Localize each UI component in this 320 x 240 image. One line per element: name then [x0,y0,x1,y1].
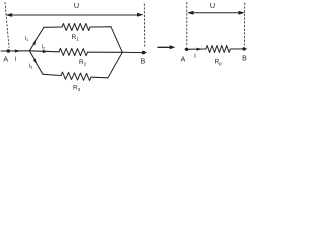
wire: branch 3 bottom-right lead [91,76,108,79]
wire: branch 3 left diagonal [29,51,43,75]
node B (right circuit) [242,47,245,50]
equivalence arrow between circuits [158,45,175,49]
svg-text:R1: R1 [72,34,80,41]
node A (left circuit) [7,49,11,53]
wire: branch 1 left diagonal [29,27,44,51]
wire: branch 2 left lead (middle) [29,51,59,52]
wire: branch 1 right diagonal [111,27,122,53]
svg-text:B: B [242,56,247,63]
resistor Rp [206,46,230,53]
wire: right circuit dashed extension at node B [243,3,245,45]
svg-text:I: I [194,54,196,60]
svg-text:B: B [141,59,146,66]
wire: right circuit dashed extension at node A [186,3,188,46]
current arrow I2 on branch 2 [43,50,48,53]
node B (left circuit) [142,51,146,55]
svg-text:U: U [74,1,79,10]
wire: node A to resistor (right circuit) [185,48,206,50]
resistor R2 [59,48,88,55]
svg-text:R2: R2 [79,59,87,66]
wire: left circuit dashed extension at node B [143,4,146,48]
wire: branch 2 right lead [88,51,123,53]
resistor R1 [62,24,90,31]
svg-text:R3: R3 [73,85,81,92]
voltage arrow U (left circuit) [6,13,144,17]
current arrow I1 on branch 1 [32,39,36,45]
svg-text:I2: I2 [42,45,47,51]
svg-text:A: A [3,57,8,64]
resistor R3 [61,72,91,81]
wire: branch 1 top-right lead [90,26,111,28]
wire: branch 1 top-left lead [44,26,62,28]
svg-text:I: I [15,57,17,63]
svg-text:I1: I1 [25,36,30,42]
wire: main wire from A to junction (left circuit) [1,50,29,52]
voltage arrow U (right circuit) [187,11,245,15]
wire: branch 3 bottom-left lead [43,74,61,75]
node A (right circuit) [185,48,188,51]
svg-text:A: A [181,57,186,64]
wire: junction to node B (left circuit) [122,51,146,53]
svg-text:U: U [210,1,215,10]
current arrow I3 on branch 3 [33,58,37,64]
current arrow I at node A [15,49,20,52]
svg-text:Rp: Rp [215,59,223,66]
wire: resistor to node B (right circuit) [230,48,246,50]
current arrow I (right circuit) [197,48,202,51]
svg-text:I3: I3 [29,64,34,70]
wire: branch 3 right diagonal [108,52,122,78]
wire: left circuit dashed extension at node A [5,3,245,49]
